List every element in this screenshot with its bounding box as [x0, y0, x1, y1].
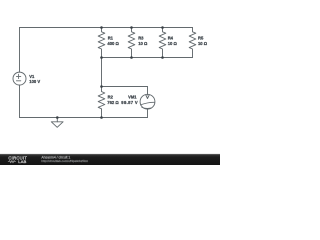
svg-text:100 V: 100 V — [29, 79, 40, 84]
svg-text:http://circuitlab.com/c/f4ps9c: http://circuitlab.com/c/f4ps9cbz5km — [41, 159, 88, 163]
svg-text:10 Ω: 10 Ω — [198, 41, 208, 46]
svg-text:99.87 V: 99.87 V — [121, 100, 138, 105]
svg-text:762 Ω: 762 Ω — [107, 100, 119, 105]
svg-text:10 Ω: 10 Ω — [138, 41, 148, 46]
svg-text:10 Ω: 10 Ω — [168, 41, 178, 46]
svg-text:400 Ω: 400 Ω — [107, 41, 119, 46]
svg-text:LAB: LAB — [18, 159, 26, 164]
svg-text:R2: R2 — [108, 95, 114, 100]
svg-text:VM1: VM1 — [128, 95, 137, 100]
